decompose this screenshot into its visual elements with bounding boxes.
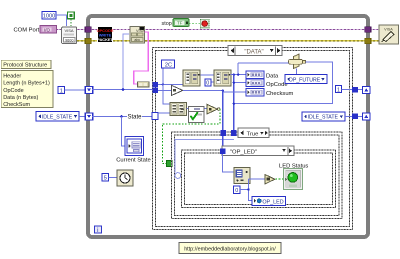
case selector label True bbox=[238, 128, 269, 137]
function Unflatten/Index bbox=[234, 168, 250, 184]
case structure OP_LED border bbox=[182, 150, 336, 207]
label Protocol Structure bbox=[1, 60, 51, 68]
svg-text:VISA: VISA bbox=[136, 29, 145, 33]
wire VISA resource (purple dashed) bbox=[56, 29, 380, 31]
shift register right bottom bbox=[363, 113, 370, 120]
svg-text:5: 5 bbox=[104, 176, 107, 182]
wire 0 and OP_LED enum junction bbox=[240, 179, 252, 200]
constant 0 (compare) bbox=[234, 186, 240, 194]
tunnel VISA right bbox=[365, 27, 371, 33]
case structure DATA border bbox=[153, 48, 353, 230]
enum constant IDLE_STATE (left) bbox=[36, 112, 79, 121]
svg-text:stop: stop bbox=[162, 21, 172, 27]
svg-text:State: State bbox=[128, 115, 143, 121]
svg-text:0: 0 bbox=[206, 81, 209, 87]
tunnel byte array (case left) bbox=[153, 82, 159, 87]
wire const to right shift register bbox=[341, 89, 362, 91]
iteration terminal i bbox=[95, 226, 102, 234]
tunnel True top B bbox=[231, 130, 237, 136]
svg-text:Protocol Structure: Protocol Structure bbox=[3, 63, 47, 69]
svg-text:2C: 2C bbox=[165, 62, 172, 68]
indicator OpCode bbox=[246, 79, 264, 86]
constant 1000 bbox=[42, 12, 56, 20]
enum constant OP_LED bbox=[252, 196, 285, 205]
tunnel count (case left) bbox=[153, 88, 159, 93]
shift register left top bbox=[85, 87, 93, 94]
wire error cluster (yellow dashed) bbox=[77, 40, 380, 42]
svg-text:Length (n Bytes+1): Length (n Bytes+1) bbox=[3, 81, 50, 87]
function Index Array B bbox=[214, 70, 231, 86]
wire to LED (green dashed) bbox=[275, 178, 283, 180]
svg-text:1: 1 bbox=[60, 88, 63, 94]
svg-text:1000: 1000 bbox=[43, 13, 55, 19]
indicator Current State bbox=[125, 137, 144, 156]
svg-text:abc: abc bbox=[134, 38, 140, 42]
case structure True border bbox=[171, 132, 342, 219]
case selector label "DATA" bbox=[228, 46, 282, 56]
function conversion triangle bbox=[171, 85, 182, 95]
case selector label "OP_LED" bbox=[222, 146, 294, 156]
function checksum verify (green check) bbox=[189, 107, 205, 123]
wire byte count to VISA Read (lavender) bbox=[123, 34, 129, 90]
function Equal (array compare) bbox=[170, 102, 186, 115]
indicator Checksum bbox=[246, 89, 264, 96]
svg-text:1: 1 bbox=[337, 87, 340, 93]
tunnel (case right, top) bbox=[352, 87, 358, 93]
VISA Read U2 bbox=[130, 26, 145, 43]
constant 0 (index) bbox=[205, 79, 211, 87]
svg-text:Data (n Bytes): Data (n Bytes) bbox=[3, 95, 38, 101]
svg-text:9600: 9600 bbox=[65, 38, 73, 42]
wire stop (green dashed) bbox=[189, 22, 201, 24]
boolean constant (green icon) bbox=[68, 12, 75, 26]
function Select bbox=[288, 54, 305, 68]
indicator Data bbox=[246, 71, 264, 78]
label URL bbox=[179, 243, 281, 254]
svg-text:Checksum: Checksum bbox=[266, 91, 294, 97]
wires to indicators cluster bbox=[183, 73, 246, 130]
wire tunnel to unflatten bbox=[223, 154, 234, 172]
tunnel True top A bbox=[221, 130, 227, 136]
String to Byte Array converter bbox=[137, 82, 149, 87]
svg-text:OP_LED: OP_LED bbox=[262, 199, 283, 205]
svg-text:OP_FUTURE: OP_FUTURE bbox=[289, 77, 321, 83]
selector terminal circle bbox=[175, 173, 181, 179]
wire 1 to shift register bbox=[65, 89, 86, 91]
svg-text:i: i bbox=[97, 228, 98, 234]
constant 2C bbox=[162, 60, 175, 68]
svg-text:VISA: VISA bbox=[64, 28, 73, 33]
svg-text:"OP_LED": "OP_LED" bbox=[230, 149, 257, 155]
VISA Configure Serial Port U1 bbox=[62, 27, 77, 44]
wire select output loop bbox=[233, 62, 333, 105]
svg-text:Header: Header bbox=[3, 73, 21, 79]
selector terminal green square bbox=[167, 161, 172, 167]
loop condition terminal (stop sign) bbox=[201, 20, 209, 28]
svg-text:http://embeddedlaboratory.blog: http://embeddedlaboratory.blogspot.in/ bbox=[184, 247, 276, 253]
constant 5 bbox=[102, 174, 109, 182]
svg-text:CheckSum: CheckSum bbox=[3, 102, 30, 108]
shift register right top bbox=[363, 87, 370, 94]
function boolean And triangle bbox=[207, 104, 220, 114]
svg-text:IDLE_STATE: IDLE_STATE bbox=[308, 115, 339, 121]
svg-text:COM Port: COM Port bbox=[14, 28, 40, 34]
wire enum to shift register bbox=[79, 115, 85, 117]
function Not Equal 0 triangle bbox=[265, 175, 275, 185]
tunnel state hollow (case left) bbox=[152, 113, 158, 120]
svg-text:Data: Data bbox=[266, 74, 279, 80]
tunnel (case right, bottom) bbox=[352, 114, 358, 120]
svg-text:OpCode: OpCode bbox=[3, 88, 24, 94]
wire state to inner selector (lavender) bbox=[175, 136, 234, 173]
label State bbox=[127, 112, 142, 120]
wire compare to and-triangle bbox=[186, 107, 207, 109]
constant 1 (shift register init) bbox=[58, 87, 65, 95]
constant 1 (right) bbox=[336, 86, 342, 94]
svg-text:IDLE_STATE: IDLE_STATE bbox=[42, 114, 73, 120]
wires inside DATA case (left cluster) bbox=[158, 68, 214, 113]
wire select left input bbox=[237, 63, 288, 76]
wire OP_FUTURE to select bbox=[296, 69, 298, 75]
svg-text:TF: TF bbox=[177, 21, 183, 26]
indicator LED Status bbox=[284, 168, 303, 189]
note protocol fields bbox=[1, 71, 53, 109]
tunnel OP_LED top bbox=[220, 148, 226, 154]
wire state (row y=116.4) bbox=[92, 115, 152, 146]
svg-text:"DATA": "DATA" bbox=[244, 50, 263, 56]
shift register left bottom bbox=[85, 113, 93, 120]
svg-text:True: True bbox=[247, 132, 259, 138]
svg-text:VISA: VISA bbox=[384, 27, 393, 31]
wire 5 to wait bbox=[109, 176, 117, 178]
svg-text:I/O: I/O bbox=[44, 27, 50, 32]
wire 1000 to VISA config bbox=[56, 15, 66, 26]
wire enum to right shift register bbox=[345, 115, 363, 117]
wire boolean result (green dashed loop to True selector) bbox=[162, 109, 220, 163]
svg-text:Current State: Current State bbox=[116, 158, 150, 164]
tunnel error left bbox=[85, 38, 91, 44]
subVI Opcode Write Packet bbox=[97, 27, 114, 43]
tunnel error right bbox=[365, 38, 371, 44]
wire count (row y=89.5) bbox=[92, 88, 153, 91]
svg-text:PACKET: PACKET bbox=[97, 37, 113, 42]
enum constant IDLE_STATE (right) bbox=[302, 112, 345, 121]
Wait (ms) timer bbox=[117, 170, 133, 186]
svg-text:0: 0 bbox=[235, 188, 238, 194]
wire unflatten to compare bbox=[248, 178, 265, 180]
function Index Array A bbox=[183, 70, 200, 86]
VISA resource control COM Port bbox=[40, 26, 57, 34]
stop boolean control bbox=[173, 19, 189, 27]
tunnel VISA left bbox=[85, 27, 91, 33]
enum constant OP_FUTURE bbox=[285, 75, 327, 84]
while loop bbox=[88, 16, 368, 237]
VISA Close U3 bbox=[379, 25, 399, 44]
wire read buffer string (pink) bbox=[134, 32, 149, 84]
